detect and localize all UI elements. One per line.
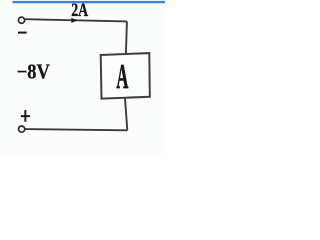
wire (blue top border line) bbox=[13, 1, 166, 3]
node minus terminal (top-left open circle) bbox=[18, 17, 24, 23]
plus polarity label bbox=[21, 110, 30, 122]
svg-text:−8V: −8V bbox=[17, 61, 51, 84]
minus polarity label bbox=[18, 32, 27, 34]
current arrow bbox=[71, 18, 77, 23]
node plus terminal (bottom-left open circle) bbox=[19, 126, 25, 132]
ammeter box A bbox=[101, 53, 150, 99]
svg-text:A: A bbox=[116, 57, 128, 95]
wire (right vertical, bottom) bbox=[125, 98, 127, 130]
wire (right vertical, top) bbox=[126, 21, 127, 54]
wire (top horizontal) bbox=[25, 19, 127, 21]
wire (bottom horizontal) bbox=[25, 129, 127, 130]
svg-text:2A: 2A bbox=[71, 0, 88, 20]
